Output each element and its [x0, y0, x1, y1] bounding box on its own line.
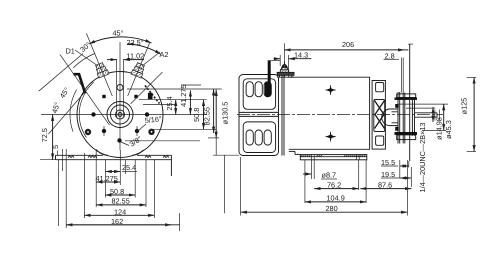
radial line upper-right 45deg [131, 72, 163, 104]
hole lower-right 5/16 [135, 126, 139, 136]
dia125 dim [467, 76, 476, 78]
brush element upper-right [145, 86, 160, 104]
base plate hatch stripe [301, 155, 366, 157]
shaft [415, 113, 438, 117]
dim 50.8 rotated [203, 100, 205, 130]
svg-text:124: 124 [114, 207, 126, 216]
dia14.98 extension lines [399, 103, 448, 105]
dim 104.9 [304, 160, 306, 203]
vent ovals lower [246, 130, 253, 145]
hatched boss lower-right [148, 129, 154, 135]
svg-text:ø130.5: ø130.5 [220, 102, 229, 125]
extension line y140.8 [125, 140, 200, 142]
svg-text:25.4: 25.4 [122, 163, 136, 172]
svg-text:41.275: 41.275 [96, 174, 118, 183]
bold brush mark [74, 74, 86, 93]
dim 2.8 [401, 58, 403, 93]
svg-text:ø45.3: ø45.3 [444, 120, 453, 139]
end cap outline [239, 75, 279, 156]
dim 82.55 rotated [213, 89, 215, 133]
left angle extension line 2 [49, 82, 94, 134]
extensions right of base [399, 160, 401, 179]
dim 14.3 [279, 55, 281, 66]
flange bottom band [397, 135, 416, 140]
slot top [376, 83, 384, 92]
base hole lines left [311, 154, 313, 179]
center shaft circles [107, 102, 133, 128]
flange top band [397, 94, 416, 98]
left angle extension line 1 [39, 54, 83, 92]
bearing boss [382, 109, 398, 126]
dim dia8.7 [303, 173, 312, 175]
top hole [117, 85, 123, 91]
base hole lines right [356, 154, 358, 160]
svg-text:206: 206 [342, 40, 354, 49]
end cap upper panel [243, 79, 275, 110]
cap face lines [281, 75, 283, 156]
svg-text:11.02: 11.02 [127, 51, 145, 60]
svg-text:D1: D1 [66, 47, 75, 56]
bearing balls [395, 104, 399, 108]
dia14.98 dim [432, 107, 434, 122]
leader A2 [142, 52, 160, 66]
svg-text:ø125: ø125 [460, 98, 469, 115]
extension line y137.9 [208, 137, 219, 139]
svg-text:5/16″: 5/16″ [144, 114, 162, 125]
hatched boss lower-left [85, 129, 91, 135]
square hole upper-left [102, 95, 105, 98]
tall gear face line [409, 44, 411, 161]
svg-text:50.8: 50.8 [110, 187, 124, 196]
dim 50.8 [105, 194, 135, 196]
svg-text:50.8: 50.8 [192, 108, 201, 122]
dim 162 [66, 224, 179, 226]
svg-text:76.2: 76.2 [327, 180, 341, 189]
extension line y85 [181, 84, 201, 86]
svg-text:ø14.98: ø14.98 [435, 117, 444, 140]
bolt hole right centerline [145, 112, 149, 116]
angular dim arc 45deg outer [89, 37, 152, 44]
svg-text:72.5: 72.5 [40, 128, 49, 142]
stator body [289, 77, 370, 149]
right slotted section [372, 81, 385, 150]
left angle dim arc [70, 90, 77, 132]
dim 76.2 [314, 188, 359, 190]
base plate side view [295, 154, 367, 159]
flange plates [397, 92, 416, 144]
flange thick bar top [395, 98, 418, 100]
terminal stud left D1 [94, 62, 109, 78]
leader D1 [75, 50, 98, 66]
keyway lines [116, 59, 118, 117]
balance symbol bottom [325, 132, 335, 142]
dim 11.02 [107, 59, 117, 61]
svg-text:82.55: 82.55 [202, 107, 211, 125]
square hole upper-right [134, 95, 137, 98]
dim 5 left [57, 151, 59, 156]
inner rim arc left [79, 94, 86, 138]
end view outer circle [77, 72, 163, 158]
bolt hole left centerline [91, 95, 149, 143]
vent ovals upper [246, 82, 271, 145]
dim 206 [283, 43, 285, 60]
dim 25.4 bottom [106, 171, 121, 173]
dim 124 [84, 214, 154, 216]
shaft end ticks [434, 110, 436, 121]
svg-text:25.4: 25.4 [165, 96, 174, 110]
terminal stud right A2 [131, 62, 146, 78]
radial line upper-left 135deg [60, 54, 110, 125]
svg-text:ø8.7: ø8.7 [322, 171, 337, 180]
dim 72.5 left [40, 159, 62, 161]
svg-text:1/4—20UNC—2B×13: 1/4—20UNC—2B×13 [418, 123, 427, 193]
terminal stud A2 side [277, 61, 294, 78]
radial line left stud axis [86, 33, 112, 96]
extension line y89 [127, 88, 222, 90]
svg-text:15.5: 15.5 [381, 158, 395, 167]
horizontal centerline [41, 114, 207, 116]
dim 41.275 [96, 181, 120, 183]
flange thick bar bottom [395, 132, 418, 135]
extension line y129.3 [150, 128, 216, 130]
hole lower-left [102, 126, 106, 136]
svg-text:280: 280 [326, 204, 338, 213]
dim 280 [240, 157, 242, 216]
svg-text:41.275: 41.275 [179, 85, 188, 107]
cap split lines [239, 111, 279, 113]
end cap lower panel [243, 122, 275, 153]
dim 25.4 rotated [175, 100, 177, 115]
svg-text:A2: A2 [160, 50, 169, 59]
mounting base left view [56, 150, 172, 176]
dim dia130.5 [215, 90, 217, 138]
extension line y99.7 [139, 99, 207, 101]
side view centerline [237, 114, 443, 116]
bolt hole bottom 3/8 [117, 138, 121, 142]
extension line y104.5 [143, 104, 176, 106]
dim 41.275 rotated [189, 90, 191, 114]
base hatch zigzag [68, 156, 169, 158]
balance symbol top [325, 85, 335, 95]
dim 82.55 [96, 204, 146, 206]
terminal stud D1 side [268, 60, 271, 83]
label 3/8 leader [121, 142, 129, 146]
angular dim arc 22.5deg [127, 44, 161, 55]
radial line right stud axis [128, 42, 150, 96]
vertical centerline [119, 42, 121, 150]
slot middle fan opening [374, 100, 385, 132]
svg-text:14.3: 14.3 [294, 51, 308, 60]
svg-text:82.55: 82.55 [112, 197, 130, 206]
svg-text:45°: 45° [113, 29, 124, 38]
dia45.3 dim [443, 104, 445, 130]
svg-text:104.9: 104.9 [327, 194, 345, 203]
bottom extension lines [58, 149, 179, 231]
svg-text:162: 162 [111, 217, 123, 226]
svg-text:5: 5 [51, 145, 60, 149]
label 5/16 leader [139, 124, 147, 131]
slot bottom [376, 136, 384, 145]
svg-text:22.5°: 22.5° [127, 38, 144, 47]
baseline link to side view [213, 154, 239, 156]
svg-text:19.5: 19.5 [381, 170, 395, 179]
angular dim arc 30deg [73, 54, 94, 68]
